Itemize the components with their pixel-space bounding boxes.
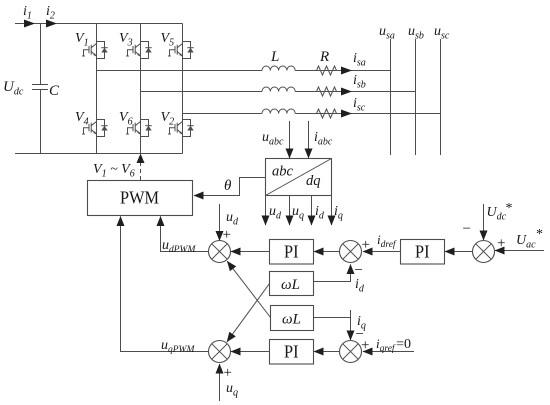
wire C2 to PI1 <box>314 251 339 253</box>
svg-text:ud: ud <box>269 204 282 222</box>
svg-text:usc: usc <box>434 24 450 42</box>
resistor R phase a <box>313 66 341 75</box>
svg-text:+: + <box>497 236 505 252</box>
mixer M2 <box>209 341 231 363</box>
transistor V2 <box>168 120 194 137</box>
svg-text:dq: dq <box>306 173 321 189</box>
wire: grid bus c <box>440 39 442 155</box>
U_dc* reference arrow <box>483 204 485 240</box>
wire C3 to PI3 <box>314 351 339 353</box>
svg-text:V2: V2 <box>161 110 175 128</box>
diagonal wL1 to M2 <box>227 284 270 342</box>
transistor V3 <box>126 42 152 59</box>
wire C4 to PI2 <box>445 251 472 253</box>
wire u_abc tap <box>289 121 291 158</box>
arrow i_sc <box>341 110 352 118</box>
svg-text:V1 ~ V6: V1 ~ V6 <box>93 162 135 180</box>
u_q arrow into M2 <box>219 364 221 401</box>
svg-text:abc: abc <box>272 164 294 180</box>
svg-text:uabc: uabc <box>262 130 284 148</box>
inductor L phase a <box>262 66 295 71</box>
svg-text:R: R <box>319 49 329 65</box>
wire u_qPWM <box>121 217 209 352</box>
svg-text:ωL: ωL <box>282 312 301 328</box>
output u_q <box>289 196 291 226</box>
svg-text:Uac: Uac <box>516 233 536 251</box>
svg-text:Udc: Udc <box>487 205 507 223</box>
arrow i_sb <box>341 88 352 96</box>
wire: phase b <box>141 91 263 93</box>
inductor phase c <box>262 109 295 113</box>
transistor V1 <box>82 42 108 59</box>
svg-text:*: * <box>506 201 513 216</box>
PI block 1 <box>270 240 314 265</box>
svg-text:iq: iq <box>357 314 366 332</box>
wire: leg 3 <box>182 24 184 154</box>
wire: DC bottom rail <box>15 153 183 155</box>
wire u_dPWM <box>161 217 209 252</box>
svg-text:iq: iq <box>334 204 343 222</box>
wire: phase a <box>97 70 263 72</box>
wire PI2 to C2 <box>363 251 401 253</box>
svg-text:−: − <box>463 221 471 237</box>
PI block 3 <box>270 340 314 365</box>
svg-text:iqref=0: iqref=0 <box>376 336 411 354</box>
svg-text:isc: isc <box>353 96 366 114</box>
transistor V4 <box>82 120 108 137</box>
svg-text:ωL: ωL <box>281 277 300 293</box>
svg-text:uq: uq <box>226 381 238 399</box>
svg-text:id: id <box>355 277 365 295</box>
wire: grid bus a <box>390 39 392 155</box>
resistor phase c <box>313 109 341 118</box>
svg-text:L: L <box>270 49 279 65</box>
output u_d <box>265 196 267 226</box>
omega-L block 1 <box>270 272 314 296</box>
arrow i_sa <box>341 67 352 75</box>
svg-text:PI: PI <box>415 242 430 262</box>
svg-text:V1: V1 <box>75 31 89 49</box>
resistor phase b <box>313 87 341 96</box>
svg-text:i1: i1 <box>23 4 32 22</box>
i_q feedback wire down <box>350 310 352 340</box>
svg-text:isa: isa <box>353 51 366 69</box>
svg-text:udPWM: udPWM <box>162 238 196 255</box>
wire PI1 to M1 <box>231 251 270 253</box>
svg-text:usb: usb <box>408 24 424 42</box>
transistor V5 <box>168 42 194 59</box>
omega-L block 2 <box>271 306 314 331</box>
u_d feedforward arrow <box>219 204 221 241</box>
svg-text:isb: isb <box>353 73 366 91</box>
svg-text:+: + <box>223 227 231 243</box>
arrow i1 <box>24 20 35 28</box>
summer C4 <box>473 241 495 263</box>
svg-text:Udc: Udc <box>3 79 24 98</box>
inductor phase b <box>262 87 295 92</box>
output i_q <box>331 196 333 226</box>
svg-text:V5: V5 <box>161 31 175 49</box>
wire: leg 2 <box>140 24 142 154</box>
i_qref = 0 input <box>363 351 414 353</box>
wire: phase c <box>183 113 263 115</box>
svg-text:θ: θ <box>224 178 232 194</box>
wire: grid bus b <box>415 39 417 155</box>
wire wL2 input <box>314 317 351 319</box>
dashed gate signal V1~V6 <box>140 161 142 180</box>
wire: DC-link branch upper <box>40 24 42 85</box>
U_ac* input arrow <box>495 250 544 252</box>
svg-text:+: + <box>362 237 370 253</box>
wire: leg 1 <box>96 24 98 154</box>
svg-text:V3: V3 <box>119 31 133 49</box>
svg-text:iabc: iabc <box>314 130 333 148</box>
wire: DC-link branch lower <box>40 90 42 154</box>
wire: DC top rail <box>15 23 183 25</box>
svg-text:C: C <box>49 83 60 99</box>
svg-text:ud: ud <box>226 210 239 228</box>
i_d feedback wire <box>314 265 351 282</box>
arrow i2 <box>46 20 57 28</box>
svg-text:PI: PI <box>284 242 299 262</box>
svg-text:PI: PI <box>284 342 299 362</box>
diagonal wL2 to M1 <box>227 261 270 317</box>
summer C2 <box>340 241 362 263</box>
svg-text:V6: V6 <box>119 110 133 128</box>
summer C3 <box>340 341 362 363</box>
wire i_abc tap <box>308 121 310 158</box>
svg-text:+: + <box>224 365 232 381</box>
svg-text:V4: V4 <box>75 110 89 128</box>
svg-text:usa: usa <box>379 24 395 42</box>
PI block 2 <box>401 240 445 265</box>
svg-text:*: * <box>536 227 543 242</box>
svg-text:i2: i2 <box>46 4 55 22</box>
svg-text:PWM: PWM <box>120 188 159 208</box>
capacitor C plates <box>32 84 48 86</box>
svg-text:id: id <box>315 204 325 222</box>
svg-text:uq: uq <box>292 204 304 222</box>
svg-text:uqPWM: uqPWM <box>161 338 195 355</box>
transistor V6 <box>126 120 152 137</box>
wire PI3 to M2 <box>231 351 270 353</box>
output i_d <box>311 196 313 226</box>
svg-text:idref: idref <box>377 232 397 250</box>
mixer M1 <box>209 241 231 263</box>
